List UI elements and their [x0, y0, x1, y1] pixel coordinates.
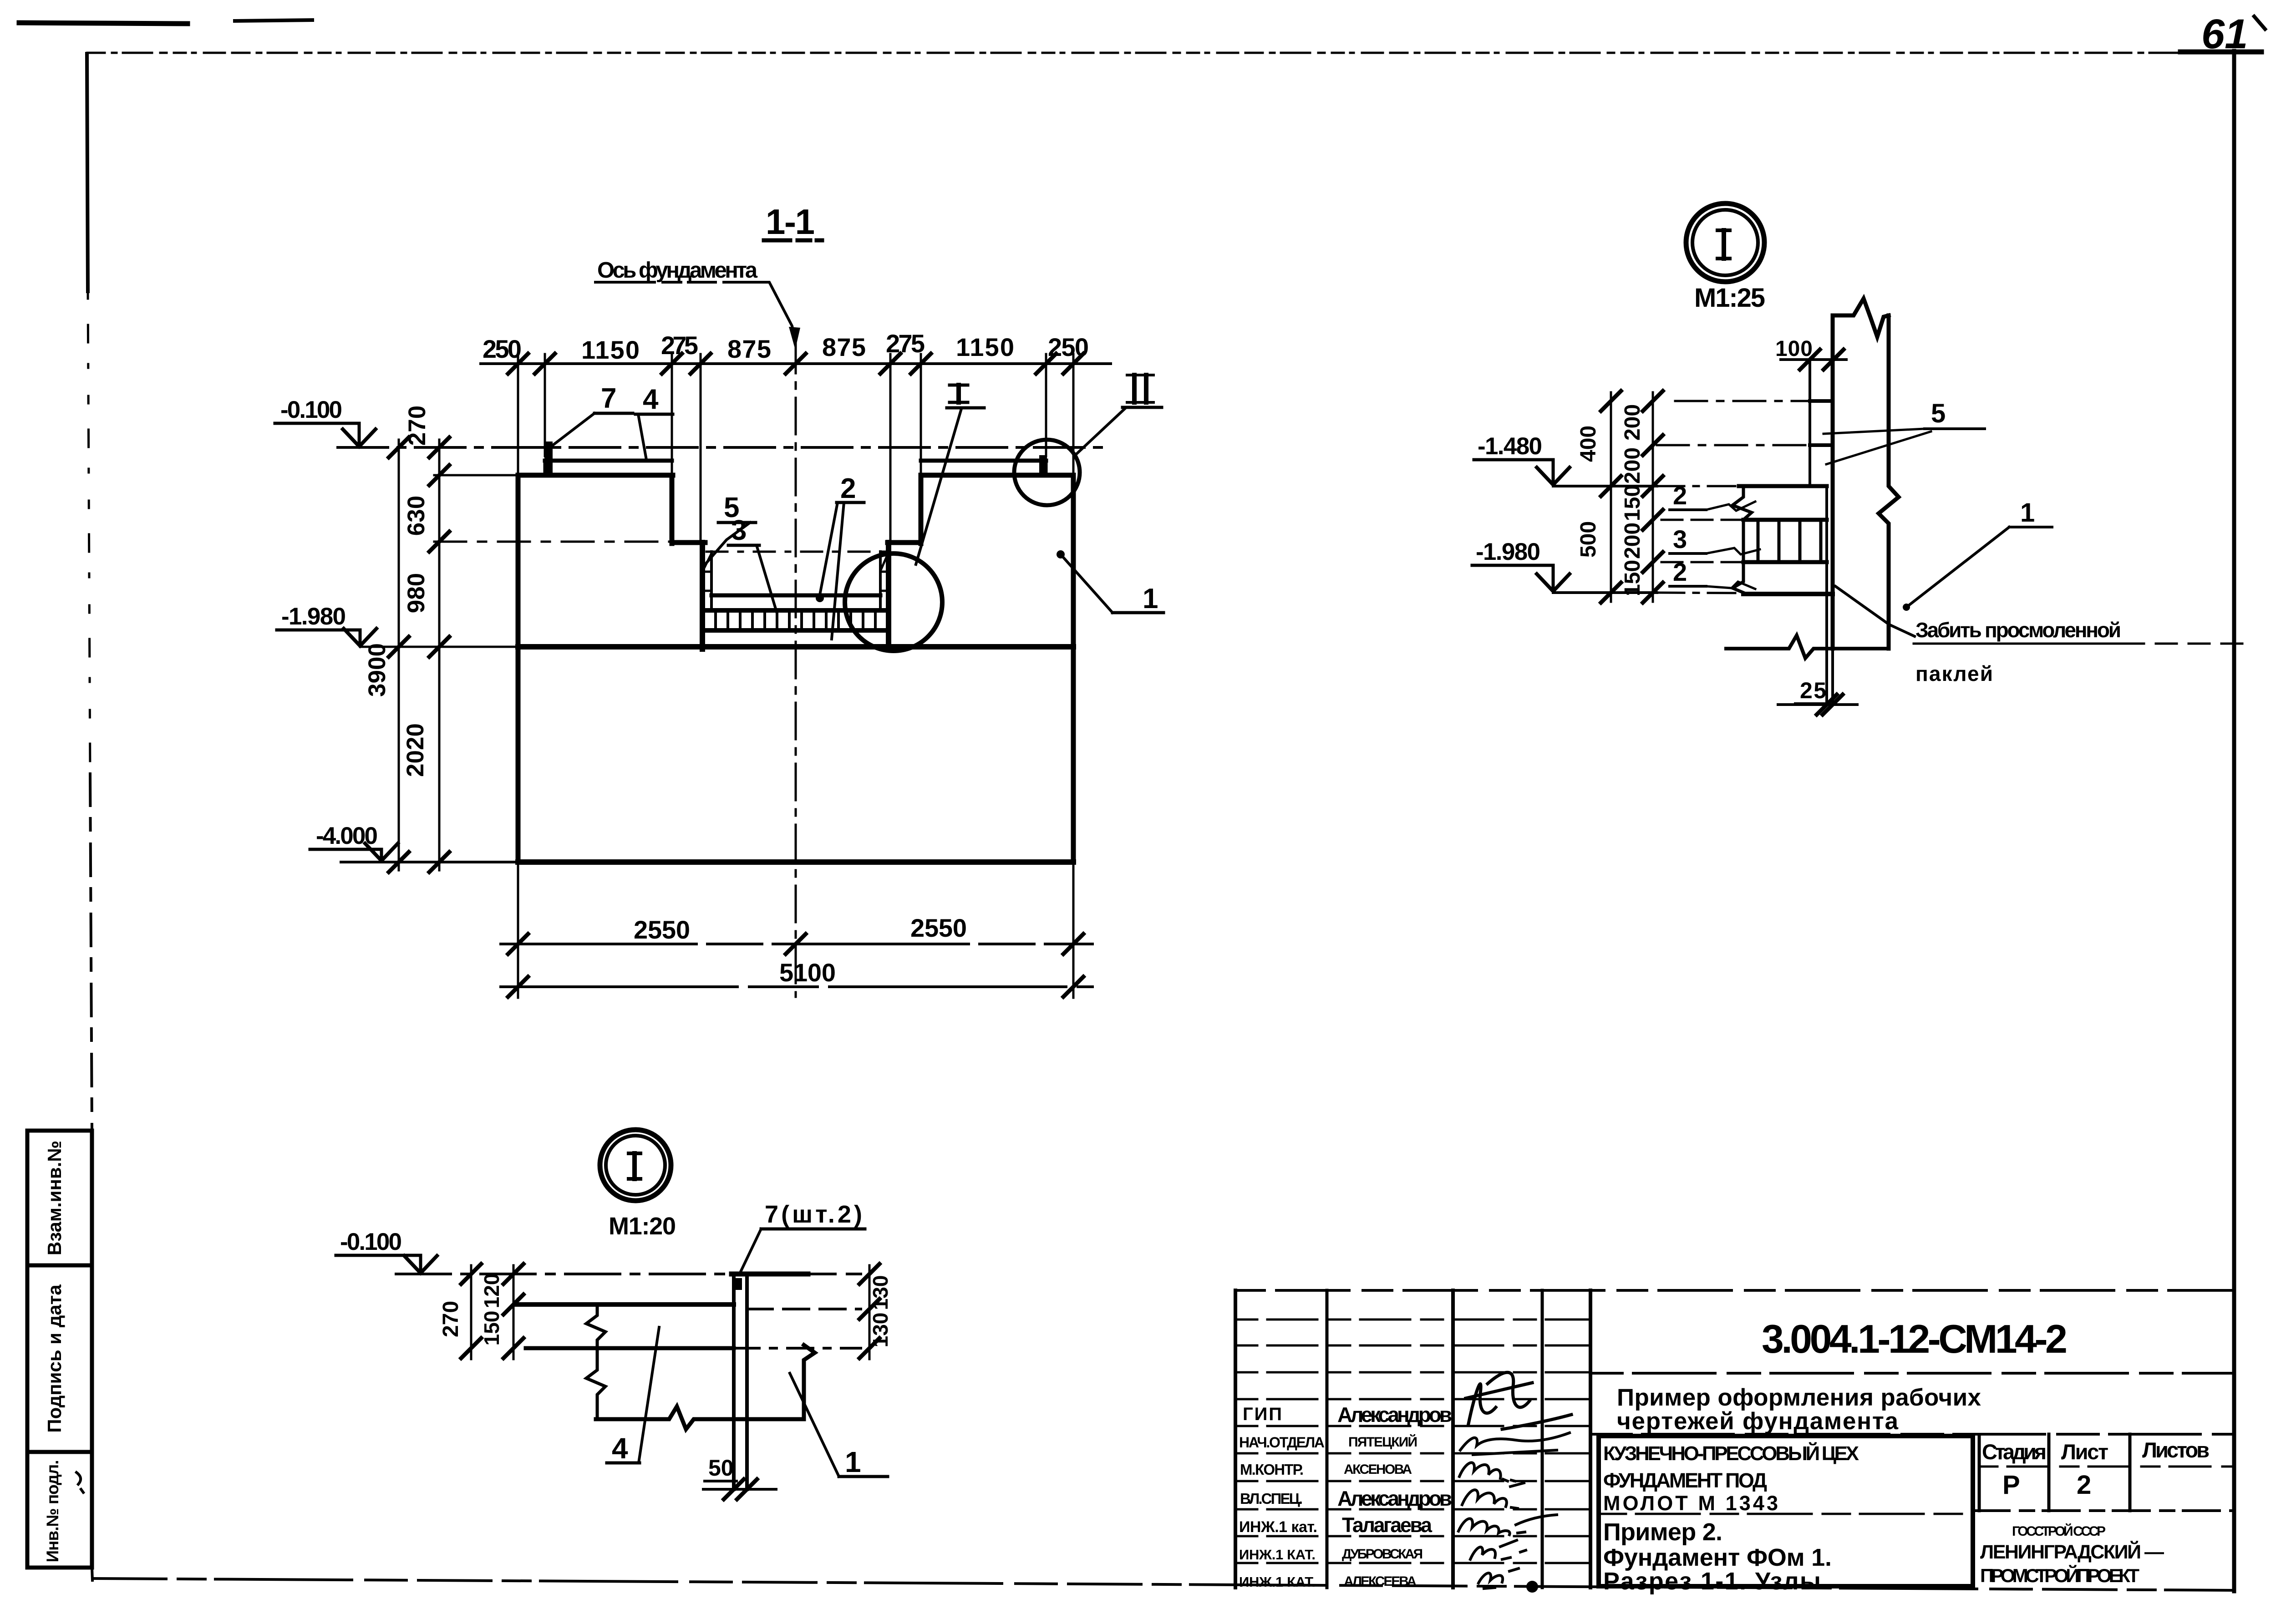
svg-text:Листов: Листов: [2142, 1438, 2210, 1462]
svg-text:120: 120: [480, 1274, 503, 1309]
svg-text:-0.100: -0.100: [280, 396, 342, 423]
svg-text:1: 1: [1143, 583, 1158, 614]
svg-text:Разрез 1-1. Узлы: Разрез 1-1. Узлы: [1603, 1568, 1821, 1595]
svg-text:ПРОМСТРОЙПРОЕКТ: ПРОМСТРОЙПРОЕКТ: [1980, 1564, 2139, 1586]
svg-text:150: 150: [480, 1311, 503, 1346]
svg-text:1150: 1150: [956, 333, 1014, 361]
svg-text:2: 2: [840, 473, 856, 504]
svg-text:М.КОНТР.: М.КОНТР.: [1240, 1461, 1304, 1478]
svg-text:M1:25: M1:25: [1694, 283, 1765, 313]
svg-text:ПЯТЕЦКИЙ: ПЯТЕЦКИЙ: [1348, 1434, 1417, 1450]
svg-text:5100: 5100: [779, 958, 836, 987]
svg-text:1: 1: [845, 1446, 861, 1478]
svg-text:400: 400: [1576, 426, 1600, 462]
svg-text:ВЛ.СПЕЦ.: ВЛ.СПЕЦ.: [1240, 1490, 1303, 1507]
svg-text:ИНЖ.1 КАТ.: ИНЖ.1 КАТ.: [1239, 1547, 1316, 1563]
svg-text:7: 7: [601, 383, 616, 414]
svg-text:875: 875: [727, 335, 771, 363]
svg-text:3: 3: [731, 515, 747, 546]
svg-text:7(шт.2): 7(шт.2): [765, 1201, 862, 1228]
svg-text:Взам.инв.№: Взам.инв.№: [44, 1141, 65, 1255]
svg-text:3900: 3900: [364, 643, 391, 697]
svg-text:2: 2: [2077, 1470, 2091, 1500]
svg-text:250: 250: [483, 335, 522, 363]
svg-text:200: 200: [1621, 404, 1645, 441]
svg-text:2020: 2020: [402, 723, 429, 777]
svg-text:1150: 1150: [581, 335, 640, 364]
svg-text:M1:20: M1:20: [609, 1213, 676, 1240]
svg-text:-1.980: -1.980: [1476, 538, 1540, 565]
svg-text:НАЧ.ОТДЕЛА: НАЧ.ОТДЕЛА: [1239, 1434, 1325, 1451]
svg-text:25: 25: [1800, 678, 1826, 703]
svg-text:1: 1: [2020, 498, 2035, 528]
svg-text:2550: 2550: [634, 915, 690, 944]
svg-text:чертежей фундамента: чертежей фундамента: [1617, 1408, 1899, 1435]
svg-text:МОЛОТ М 1343: МОЛОТ М 1343: [1603, 1492, 1778, 1515]
svg-text:875: 875: [822, 333, 866, 361]
svg-text:ГОССТРОЙ СССР: ГОССТРОЙ СССР: [2012, 1523, 2106, 1539]
svg-text:270: 270: [439, 1301, 463, 1337]
svg-text:ДУБРОВСКАЯ: ДУБРОВСКАЯ: [1342, 1547, 1423, 1562]
svg-text:130: 130: [869, 1275, 892, 1310]
svg-text:ГИП: ГИП: [1243, 1404, 1282, 1424]
svg-text:4: 4: [643, 384, 659, 415]
svg-text:Талагаева: Талагаева: [1342, 1513, 1433, 1537]
svg-text:500: 500: [1576, 521, 1600, 558]
svg-text:1-1: 1-1: [766, 202, 815, 242]
svg-text:Александров: Александров: [1337, 1403, 1452, 1426]
svg-text:ФУНДАМЕНТ ПОД: ФУНДАМЕНТ ПОД: [1603, 1469, 1767, 1492]
svg-text:Р: Р: [2002, 1470, 2020, 1500]
svg-text:Подпись и дата: Подпись и дата: [44, 1284, 65, 1433]
svg-text:-1.480: -1.480: [1478, 433, 1542, 460]
svg-text:100: 100: [1775, 337, 1813, 361]
svg-text:980: 980: [403, 573, 430, 613]
svg-text:250: 250: [1048, 333, 1089, 361]
svg-text:61: 61: [2201, 11, 2248, 57]
svg-text:Забить просмоленной: Забить просмоленной: [1915, 618, 2121, 642]
svg-text:КУЗНЕЧНО-ПРЕССОВЫЙ ЦЕХ: КУЗНЕЧНО-ПРЕССОВЫЙ ЦЕХ: [1603, 1441, 1859, 1465]
svg-text:ИНЖ.1 кат.: ИНЖ.1 кат.: [1239, 1518, 1317, 1536]
svg-text:275: 275: [886, 329, 925, 358]
svg-text:Фундамент ФОм 1.: Фундамент ФОм 1.: [1603, 1544, 1832, 1571]
svg-text:130: 130: [869, 1313, 892, 1348]
svg-text:Стадия: Стадия: [1982, 1440, 2047, 1464]
svg-text:630: 630: [403, 496, 430, 536]
svg-text:Инв.№ подл.: Инв.№ подл.: [43, 1460, 62, 1563]
svg-text:4: 4: [612, 1432, 628, 1465]
svg-text:АКСЕНОВА: АКСЕНОВА: [1344, 1462, 1412, 1477]
svg-text:Ось фундамента: Ось фундамента: [597, 258, 758, 283]
svg-text:270: 270: [404, 406, 431, 446]
svg-text:200: 200: [1621, 447, 1645, 484]
svg-text:150: 150: [1621, 560, 1645, 596]
svg-text:3.004.1-12-СМ14-2: 3.004.1-12-СМ14-2: [1762, 1316, 2068, 1361]
svg-text:50: 50: [708, 1455, 734, 1481]
svg-text:2550: 2550: [910, 913, 967, 942]
svg-text:Александров: Александров: [1337, 1487, 1452, 1510]
svg-text:АЛЕКСЕЕВА: АЛЕКСЕЕВА: [1344, 1574, 1417, 1589]
svg-text:5: 5: [1931, 399, 1946, 428]
svg-text:Пример 2.: Пример 2.: [1603, 1518, 1722, 1546]
svg-text:275: 275: [661, 331, 698, 360]
svg-text:3: 3: [1673, 525, 1687, 553]
svg-text:ЛЕНИНГРАДСКИЙ —: ЛЕНИНГРАДСКИЙ —: [1980, 1541, 2164, 1563]
svg-text:Пример оформления рабочих: Пример оформления рабочих: [1617, 1384, 1981, 1411]
svg-text:150: 150: [1621, 485, 1645, 521]
svg-text:2: 2: [1673, 481, 1687, 510]
svg-text:ИНЖ.1 КАТ.: ИНЖ.1 КАТ.: [1239, 1574, 1316, 1590]
svg-text:-1.980: -1.980: [281, 603, 346, 630]
svg-text:2: 2: [1673, 558, 1687, 586]
svg-text:Лист: Лист: [2061, 1440, 2108, 1464]
svg-text:200: 200: [1621, 523, 1645, 559]
svg-text:-0.100: -0.100: [340, 1228, 402, 1255]
svg-text:паклей: паклей: [1915, 662, 1993, 685]
